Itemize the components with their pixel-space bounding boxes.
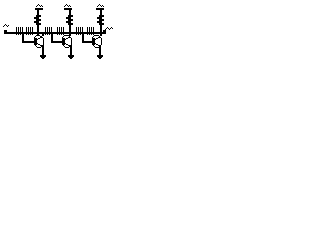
transistor Q2 (62, 35, 72, 48)
resistor R3 (vertical zigzag) (34, 15, 41, 25)
ground Q3 (97, 55, 103, 59)
resistor R2 (series, teeth) (26, 27, 33, 35)
wire Q3 emitter (99, 45, 101, 55)
wire drop node C to Q3 base (82, 33, 94, 43)
power Vcc3 bar (96, 8, 104, 10)
resistor R1 (series, teeth) (16, 27, 23, 35)
circuit schematic: 3-stage transistor amplifier with pull-up resistors (0, 0, 117, 97)
wire R3 to bus (37, 25, 39, 32)
resistor R4 (series, teeth) (45, 27, 52, 35)
ground Q2 (68, 55, 74, 59)
wire Vcc1 to R3 (37, 10, 39, 16)
resistor R7 (series, teeth) (76, 27, 83, 35)
transistor Q1 (34, 35, 44, 48)
port IN dot (4, 30, 7, 34)
wire R9 to bus (100, 25, 102, 32)
wire bus to Q1 collector (42, 33, 44, 36)
wire R6 to bus (69, 25, 71, 32)
power Vcc2 label (64, 4, 71, 7)
node Vout label (~) (105, 27, 113, 30)
wire Q2 emitter (70, 45, 72, 55)
resistor R6 (vertical zigzag) (66, 15, 73, 25)
transistor Q3 (92, 35, 102, 48)
port OUT dot (103, 30, 106, 34)
ground Q1 (40, 55, 46, 59)
wire Vcc3 to R9 (100, 10, 102, 16)
power Vcc1 label (36, 4, 43, 7)
resistor R5 (series, teeth) (57, 27, 64, 35)
wire drop node B to Q2 base (51, 33, 64, 43)
wire Vcc2 to R6 (69, 10, 71, 16)
resistor R9 (vertical zigzag) (97, 15, 104, 25)
wire Q1 emitter (42, 45, 44, 55)
power Vcc2 bar (64, 8, 72, 10)
resistor R8 (series, teeth) (87, 27, 94, 35)
wire drop node A to Q1 base (22, 33, 36, 43)
wire bus (signal rail) (6, 32, 105, 34)
wire bus to Q3 collector (100, 33, 102, 36)
power Vcc1 bar (35, 8, 43, 10)
power Vcc3 label (97, 4, 104, 7)
node Vin label (~) (3, 24, 9, 27)
wire bus to Q2 collector (69, 33, 71, 36)
wire R3 node to Q1 collector top (37, 34, 39, 36)
